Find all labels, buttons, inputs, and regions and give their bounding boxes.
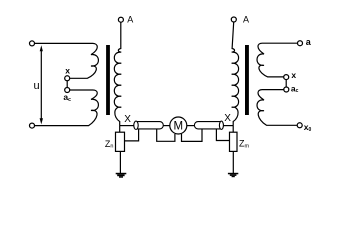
voltage arrow u [40, 45, 43, 124]
wire cable1 shield to Zn [125, 129, 139, 141]
winding T1 primary lower section with wire [35, 90, 99, 126]
winding T1 primary upper section with wire [35, 43, 99, 78]
wire X node down to Zn [119, 126, 121, 133]
motor M [170, 117, 187, 134]
node: source terminal top-left [30, 41, 35, 46]
wire X node to cable [120, 125, 134, 127]
svg-text:A: A [243, 14, 249, 24]
wire motor to cable2 core [187, 125, 195, 127]
wire X node down to Zm [232, 126, 234, 133]
node: terminal A (T2) [231, 17, 236, 22]
winding T2 secondary upper section with wire to a [257, 43, 297, 77]
wire cable1 core to motor [163, 125, 170, 127]
core T1 [106, 45, 110, 115]
svg-text:x: x [65, 65, 70, 75]
cable 2 end cap [219, 121, 223, 129]
svg-text:X: X [224, 113, 231, 124]
wire tap stub [66, 81, 68, 88]
wire Zn to ground [119, 151, 121, 173]
winding T2 secondary lower section with wire to x0 [257, 90, 297, 126]
svg-text:u: u [34, 80, 40, 92]
svg-text:A: A [127, 15, 133, 25]
winding T1 secondary with wire from A [114, 22, 121, 125]
cable 1 end cap [134, 121, 138, 129]
winding T2 primary with wire from A [232, 22, 239, 126]
cable 1 body [134, 122, 164, 129]
node: terminal x0 (T2) [297, 123, 302, 128]
cable 2 body [194, 122, 223, 129]
core T2 [245, 45, 249, 115]
node: terminal a (T2) [298, 41, 303, 46]
ground right [228, 173, 238, 177]
node: tap x (T1) [65, 76, 70, 81]
ground left [116, 173, 127, 178]
wire cable2 shield to Zm [216, 129, 229, 140]
node: tap ac (T1) [65, 88, 70, 93]
svg-text:X: X [124, 114, 131, 125]
wire motor frame to cable2 shield [182, 129, 203, 141]
wire Zm to ground [232, 151, 234, 173]
node: tap x (T2) [284, 75, 289, 80]
svg-text:x: x [291, 70, 296, 80]
node: source terminal bottom-left [30, 123, 35, 128]
impedance Zm box [230, 132, 238, 151]
svg-text:M: M [174, 120, 184, 132]
wire cable2 core to X node [223, 125, 233, 127]
node: terminal A (T1) [118, 17, 123, 22]
impedance Zn box [116, 132, 125, 151]
wire tap stub (T2) [285, 80, 287, 87]
wire cable1 shield to motor frame [157, 129, 175, 141]
node: tap ac (T2) [284, 87, 289, 92]
